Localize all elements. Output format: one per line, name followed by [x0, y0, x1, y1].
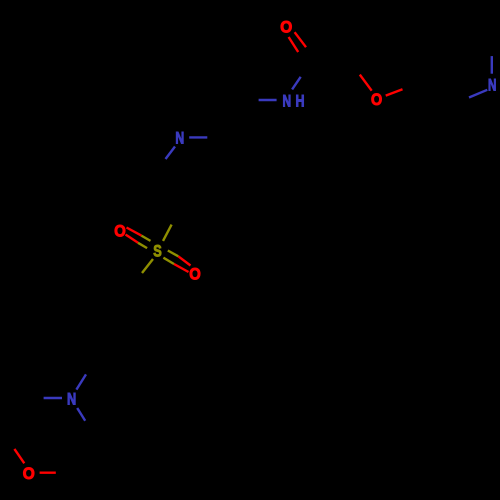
olive sulfur half-bonds: [138, 225, 178, 273]
svg-text:N: N: [488, 77, 496, 95]
bond S=O(low-right) line b red half: [174, 264, 189, 272]
bond C2-N(amide) half: [292, 77, 301, 90]
svg-text:O: O: [371, 91, 382, 109]
bond S-CH2 up-right half: [163, 225, 172, 241]
svg-text:O: O: [189, 265, 201, 283]
bond C2=O1 line a: [289, 37, 299, 52]
svg-text:O: O: [114, 222, 126, 240]
bond N(morpholine)-C down-right half: [77, 408, 85, 421]
svg-text:O: O: [280, 18, 292, 36]
bond O(morpholine)-C half right: [40, 472, 56, 474]
blue nitrogen half-bonds: [44, 56, 492, 421]
bond N(morpholine)-C(phenyl) half: [76, 374, 86, 389]
bond O(furan)-C2 half: [360, 75, 372, 91]
bond S=O(low-right) line a red half: [178, 256, 190, 265]
bond C2=O1 line b: [295, 32, 306, 47]
bond S=O(up-left) line b olive half: [138, 243, 147, 248]
svg-text:N: N: [282, 93, 291, 111]
svg-text:O: O: [23, 465, 35, 483]
bond N(amide)-CH2 half: [259, 99, 277, 101]
bond N(tert)-CH2 down-left half: [166, 147, 176, 160]
bond N(pyridine)-C4 vertical half: [491, 56, 493, 74]
bond S=O(low-right) line b olive half: [163, 258, 174, 264]
bond S=O(up-left) line a olive half: [141, 236, 150, 241]
bond C(=O) double bond red halves, carbonyl O: [14, 32, 402, 473]
bond N(morpholine)-C left half: [44, 397, 62, 399]
svg-text:N: N: [175, 130, 184, 148]
bond N(pyridine)-C6 diagonal half: [469, 90, 487, 98]
svg-text:S: S: [153, 243, 162, 261]
bond S=O(up-left) line b red half: [126, 235, 139, 243]
bond N(tert)-CH2 right half: [189, 136, 207, 138]
svg-text:N: N: [67, 390, 76, 408]
bond S-C(phenyl) down-left half: [142, 259, 153, 273]
bond S=O(up-left) line a red half: [127, 228, 142, 236]
svg-text:H: H: [296, 93, 305, 111]
bond S=O(low-right) line a olive half: [168, 251, 179, 257]
bond O(morpholine)-C half up-left: [14, 449, 24, 463]
bond O(furan)-C7a half: [386, 89, 403, 95]
